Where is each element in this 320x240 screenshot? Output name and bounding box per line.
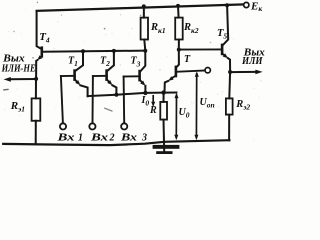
node R top junction: [161, 90, 165, 94]
ground symbol: [153, 145, 180, 154]
transistor T reference: [165, 50, 205, 93]
node T2 collector junction: [112, 49, 116, 53]
wire input 1: [61, 76, 63, 123]
svg-text:Вх: Вх: [90, 132, 108, 143]
voltage Uop measure arrow: [194, 71, 198, 140]
wire OR output arrow: [230, 71, 256, 73]
node rail-Rk1 junction: [142, 4, 146, 8]
svg-text:Вх: Вх: [120, 132, 137, 143]
resistor Re2: [226, 72, 233, 140]
node T2 emitter junction: [114, 93, 118, 97]
node T3 emitter junction: [143, 91, 147, 95]
transistor T4: [36, 11, 42, 79]
terminal input 1 circle: [60, 123, 66, 129]
stray scan dash left: [4, 88, 8, 91]
terminal reference circle: [205, 68, 210, 73]
voltage U0 measure arrow: [174, 93, 178, 141]
wire input 3: [123, 77, 126, 124]
resistor Rk1: [141, 7, 148, 51]
current I0 arrow: [152, 96, 154, 103]
terminal E_k circle: [244, 2, 249, 7]
svg-text:R: R: [149, 105, 157, 116]
node Rk2-T5 base junction: [177, 48, 181, 52]
node rail-T5 junction: [225, 3, 229, 7]
wire NOR output arrow: [10, 78, 37, 80]
wire bottom rail: [3, 140, 229, 145]
stray scan dash middle: [105, 108, 112, 111]
svg-text:Т: Т: [184, 54, 191, 65]
node NOR output junction: [34, 77, 38, 81]
resistor Rk2: [175, 6, 183, 50]
node T1 collector junction: [81, 49, 85, 53]
node Rk1-bus-T3 junction: [143, 49, 147, 53]
wire top supply rail: [37, 4, 244, 10]
transistor T1: [61, 51, 88, 96]
terminal input 3 circle: [121, 123, 127, 129]
svg-text:1: 1: [78, 132, 83, 143]
wire input 2: [92, 76, 94, 123]
transistor T3: [124, 51, 146, 93]
wire collector bus to T4 base: [43, 51, 146, 52]
svg-text:ИЛИ: ИЛИ: [241, 56, 264, 67]
resistor Re1: [32, 79, 41, 144]
svg-text:3: 3: [141, 132, 147, 143]
terminal input 2 circle: [89, 123, 95, 129]
svg-text:ИЛИ-НЕ: ИЛИ-НЕ: [1, 64, 36, 75]
node rail-Rk2 junction: [176, 4, 180, 8]
svg-text:2: 2: [109, 132, 115, 143]
wire common emitter bus: [88, 93, 177, 97]
transistor T5: [179, 5, 230, 72]
transistor T2: [93, 51, 117, 95]
node OR output junction: [228, 70, 232, 74]
resistor R: [160, 93, 167, 152]
